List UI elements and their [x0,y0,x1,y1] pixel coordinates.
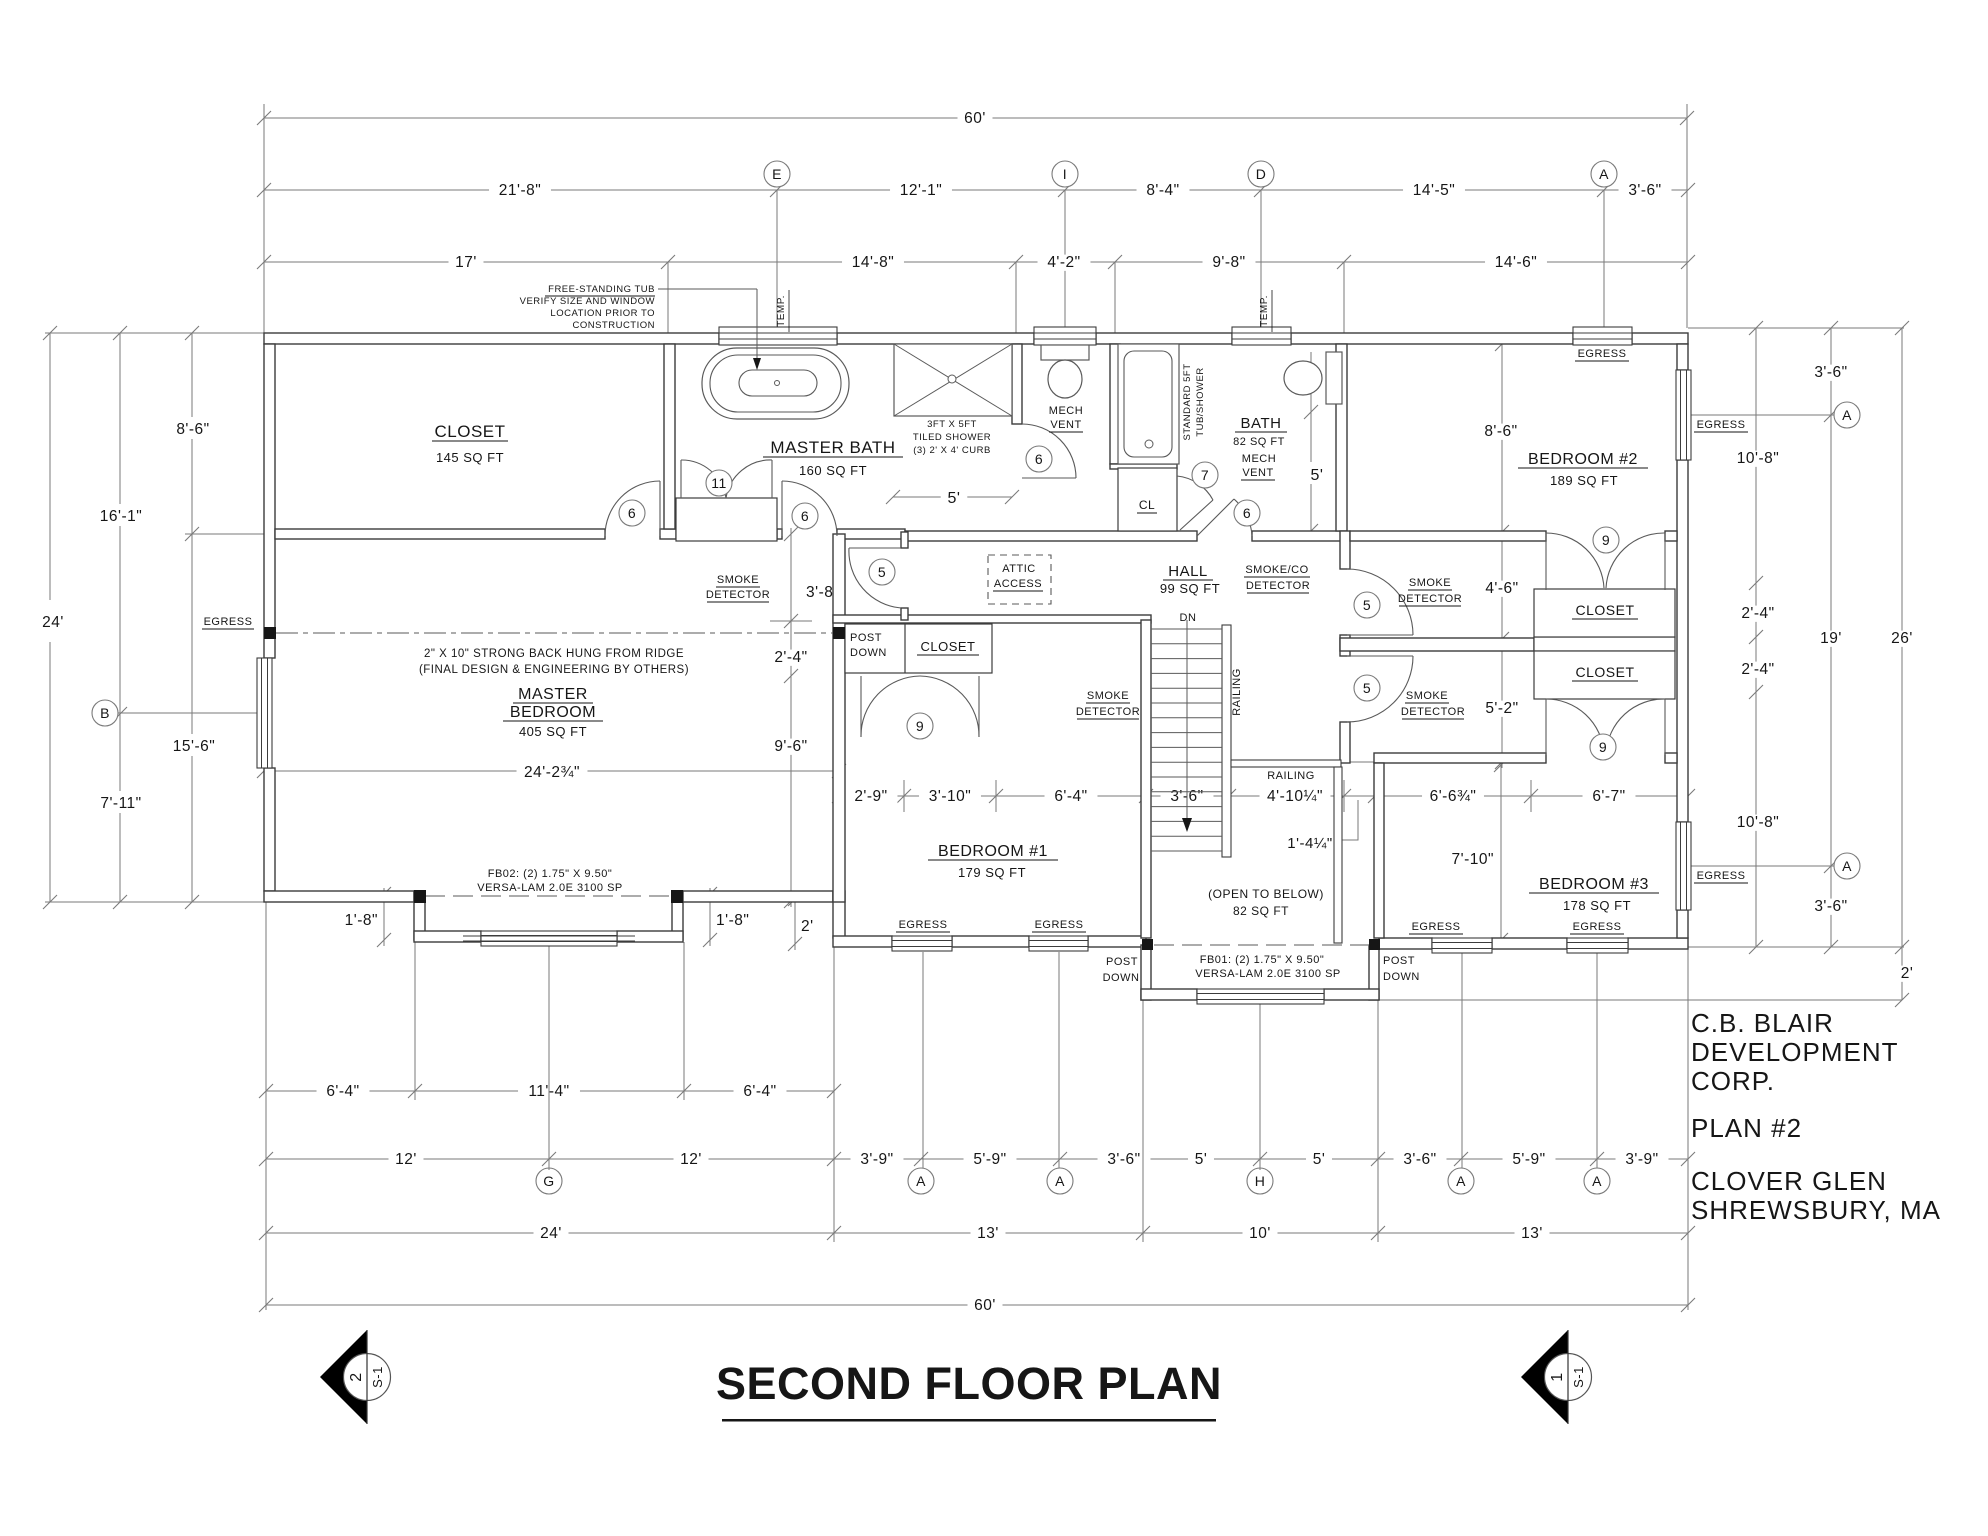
svg-text:DN: DN [1180,612,1197,624]
svg-text:60': 60' [974,1297,996,1314]
svg-text:CLOSET: CLOSET [920,639,975,654]
svg-text:5: 5 [1363,597,1371,613]
svg-text:24': 24' [540,1225,562,1242]
svg-text:VERSA-LAM 2.0E 3100 SP: VERSA-LAM 2.0E 3100 SP [1195,968,1341,980]
svg-text:9: 9 [1602,532,1610,548]
svg-text:G: G [543,1173,554,1189]
svg-text:I: I [1063,166,1067,182]
svg-text:EGRESS: EGRESS [1578,348,1627,360]
svg-text:2': 2' [1901,965,1914,982]
svg-text:S-1: S-1 [370,1366,385,1388]
svg-text:3'-6": 3'-6" [1814,898,1847,915]
svg-text:EGRESS: EGRESS [1412,921,1461,933]
svg-text:EGRESS: EGRESS [1035,919,1084,931]
svg-text:16'-1": 16'-1" [100,508,142,525]
svg-text:POST: POST [850,632,882,644]
svg-text:SMOKE: SMOKE [1409,577,1451,589]
svg-text:10': 10' [1249,1225,1271,1242]
svg-text:4'-10¼": 4'-10¼" [1267,788,1323,805]
svg-text:A: A [916,1173,926,1189]
svg-text:BEDROOM: BEDROOM [510,704,596,721]
svg-text:CONSTRUCTION: CONSTRUCTION [572,320,655,331]
svg-text:13': 13' [977,1225,999,1242]
svg-text:BEDROOM #3: BEDROOM #3 [1539,876,1649,893]
svg-text:7'-11": 7'-11" [100,795,141,812]
svg-text:EGRESS: EGRESS [1573,921,1622,933]
svg-text:12': 12' [680,1151,702,1168]
svg-text:4'-2": 4'-2" [1047,254,1080,271]
svg-text:5'-9": 5'-9" [973,1151,1006,1168]
svg-text:1'-4¼": 1'-4¼" [1287,835,1332,852]
svg-text:VERSA-LAM 2.0E 3100 SP: VERSA-LAM 2.0E 3100 SP [477,882,623,894]
svg-text:13': 13' [1521,1225,1543,1242]
svg-text:A: A [1592,1173,1602,1189]
svg-text:5'-9": 5'-9" [1512,1151,1545,1168]
svg-text:SMOKE: SMOKE [1406,690,1448,702]
svg-text:17': 17' [455,254,477,271]
svg-text:3'-6": 3'-6" [1628,182,1661,199]
svg-text:(3) 2' X 4' CURB: (3) 2' X 4' CURB [913,445,991,456]
svg-text:CLOSET: CLOSET [1575,664,1634,680]
svg-text:178 SQ FT: 178 SQ FT [1563,898,1631,913]
svg-text:9'-8": 9'-8" [1212,254,1245,271]
svg-text:2'-4": 2'-4" [1741,661,1774,678]
svg-text:5': 5' [1311,467,1324,484]
svg-text:POST: POST [1106,956,1138,968]
svg-text:EGRESS: EGRESS [1697,419,1746,431]
svg-text:DETECTOR: DETECTOR [1076,706,1140,718]
svg-text:6: 6 [628,505,636,521]
svg-text:14'-5": 14'-5" [1413,182,1455,199]
svg-text:DOWN: DOWN [1103,972,1140,984]
svg-text:99 SQ FT: 99 SQ FT [1160,581,1220,596]
svg-text:POST: POST [1383,955,1415,967]
svg-text:EGRESS: EGRESS [899,919,948,931]
svg-text:2: 2 [348,1372,365,1381]
svg-text:24': 24' [42,614,64,631]
svg-text:HALL: HALL [1168,563,1208,580]
svg-text:SMOKE: SMOKE [1087,690,1129,702]
svg-text:DETECTOR: DETECTOR [1246,580,1310,592]
svg-text:DETECTOR: DETECTOR [1398,593,1462,605]
svg-text:2" X 10" STRONG BACK HUNG FROM: 2" X 10" STRONG BACK HUNG FROM RIDGE [424,648,684,660]
svg-text:A: A [1599,166,1609,182]
svg-text:6'-4": 6'-4" [1054,788,1087,805]
svg-text:CL: CL [1139,498,1155,512]
svg-text:4'-6": 4'-6" [1485,580,1518,597]
svg-text:A: A [1842,858,1852,874]
svg-text:FB01: (2) 1.75" X 9.50": FB01: (2) 1.75" X 9.50" [1200,954,1324,966]
svg-text:3'-10": 3'-10" [929,788,971,805]
svg-text:2'-9": 2'-9" [854,788,887,805]
svg-text:15'-6": 15'-6" [173,738,215,755]
svg-text:A: A [1842,407,1852,423]
svg-text:8'-4": 8'-4" [1146,182,1179,199]
svg-text:14'-8": 14'-8" [852,254,894,271]
svg-text:19': 19' [1820,630,1842,647]
svg-text:6'-7": 6'-7" [1592,788,1625,805]
svg-text:2'-4": 2'-4" [774,649,807,666]
svg-text:82 SQ FT: 82 SQ FT [1233,436,1285,448]
svg-text:EGRESS: EGRESS [204,616,253,628]
svg-text:E: E [772,166,782,182]
svg-text:5: 5 [878,564,886,580]
svg-text:MASTER: MASTER [518,686,588,703]
svg-text:189 SQ FT: 189 SQ FT [1550,473,1618,488]
svg-text:145 SQ FT: 145 SQ FT [436,450,504,465]
svg-text:5': 5' [948,490,961,507]
svg-text:6: 6 [1243,505,1251,521]
svg-text:ATTIC: ATTIC [1002,563,1035,575]
svg-text:6: 6 [1035,451,1043,467]
svg-text:3'-9": 3'-9" [860,1151,893,1168]
svg-text:BATH: BATH [1241,415,1282,432]
svg-text:1'-8": 1'-8" [716,912,749,929]
svg-text:CLOSET: CLOSET [434,422,505,441]
svg-text:FB02: (2) 1.75" X 9.50": FB02: (2) 1.75" X 9.50" [488,868,612,880]
svg-text:SMOKE/CO: SMOKE/CO [1245,564,1308,576]
svg-text:RAILING: RAILING [1231,668,1243,716]
svg-text:D: D [1256,166,1267,182]
svg-text:CLOSET: CLOSET [1575,602,1634,618]
svg-text:10'-8": 10'-8" [1737,814,1779,831]
svg-text:EGRESS: EGRESS [1697,870,1746,882]
svg-text:S-1: S-1 [1571,1366,1586,1388]
svg-text:2': 2' [801,918,814,935]
svg-text:8'-6": 8'-6" [1484,423,1517,440]
svg-text:1: 1 [1549,1372,1566,1381]
svg-text:TILED SHOWER: TILED SHOWER [913,432,991,443]
svg-text:SECOND FLOOR PLAN: SECOND FLOOR PLAN [716,1358,1222,1409]
svg-text:5': 5' [1195,1151,1208,1168]
svg-text:A: A [1456,1173,1466,1189]
svg-text:82 SQ FT: 82 SQ FT [1233,904,1289,918]
svg-text:SHREWSBURY, MA: SHREWSBURY, MA [1691,1195,1941,1225]
svg-text:6: 6 [801,508,809,524]
svg-text:5': 5' [1313,1151,1326,1168]
svg-text:7'-10": 7'-10" [1452,851,1494,868]
svg-text:5'-2": 5'-2" [1485,700,1518,717]
svg-text:DETECTOR: DETECTOR [706,589,770,601]
svg-text:BEDROOM #2: BEDROOM #2 [1528,451,1638,468]
svg-text:3'-6": 3'-6" [1403,1151,1436,1168]
svg-text:(OPEN TO BELOW): (OPEN TO BELOW) [1208,887,1324,901]
svg-text:RAILING: RAILING [1267,770,1315,782]
svg-text:BEDROOM #1: BEDROOM #1 [938,843,1048,860]
svg-text:B: B [100,705,110,721]
svg-text:5: 5 [1363,680,1371,696]
svg-text:3'-9": 3'-9" [1625,1151,1658,1168]
svg-text:8'-6": 8'-6" [176,421,209,438]
svg-text:6'-6¾": 6'-6¾" [1430,788,1477,805]
svg-text:3FT X 5FT: 3FT X 5FT [927,419,977,430]
svg-text:11: 11 [711,475,727,491]
svg-text:DOWN: DOWN [850,647,887,659]
svg-text:DOWN: DOWN [1383,971,1420,983]
svg-text:60': 60' [964,110,986,127]
svg-text:3'-6": 3'-6" [1814,364,1847,381]
svg-text:PLAN #2: PLAN #2 [1691,1113,1802,1143]
svg-text:VENT: VENT [1050,419,1081,431]
svg-text:CORP.: CORP. [1691,1066,1775,1096]
svg-text:(FINAL DESIGN & ENGINEERING BY: (FINAL DESIGN & ENGINEERING BY OTHERS) [419,664,689,676]
svg-text:TEMP.: TEMP. [1259,295,1270,327]
svg-text:1'-8": 1'-8" [345,912,378,929]
svg-text:MASTER BATH: MASTER BATH [770,438,895,457]
svg-text:9: 9 [916,718,924,734]
svg-text:12'-1": 12'-1" [900,182,942,199]
svg-text:TUB/SHOWER: TUB/SHOWER [1195,367,1206,436]
svg-text:21'-8": 21'-8" [499,182,541,199]
svg-text:160 SQ FT: 160 SQ FT [799,463,867,478]
svg-text:MECH: MECH [1242,453,1276,465]
svg-text:2'-4": 2'-4" [1741,605,1774,622]
svg-text:7: 7 [1201,467,1209,483]
svg-text:10'-8": 10'-8" [1737,450,1779,467]
svg-text:DETECTOR: DETECTOR [1401,706,1465,718]
svg-text:DEVELOPMENT: DEVELOPMENT [1691,1037,1899,1067]
svg-text:3'-6": 3'-6" [1107,1151,1140,1168]
svg-text:179 SQ FT: 179 SQ FT [958,865,1026,880]
svg-text:LOCATION PRIOR TO: LOCATION PRIOR TO [550,308,655,319]
svg-text:12': 12' [395,1151,417,1168]
svg-text:9: 9 [1599,739,1607,755]
svg-text:VERIFY SIZE AND WINDOW: VERIFY SIZE AND WINDOW [520,296,655,307]
svg-text:MECH: MECH [1049,405,1083,417]
svg-text:405 SQ FT: 405 SQ FT [519,724,587,739]
svg-text:STANDARD 5FT: STANDARD 5FT [1182,363,1193,440]
svg-text:TEMP.: TEMP. [776,295,787,327]
svg-text:6'-4": 6'-4" [743,1083,776,1100]
svg-text:SMOKE: SMOKE [717,574,759,586]
svg-text:VENT: VENT [1242,467,1273,479]
svg-text:14'-6": 14'-6" [1495,254,1537,271]
svg-text:9'-6": 9'-6" [774,738,807,755]
svg-text:A: A [1055,1173,1065,1189]
svg-text:ACCESS: ACCESS [994,578,1042,590]
svg-text:CLOVER GLEN: CLOVER GLEN [1691,1166,1887,1196]
svg-text:C.B. BLAIR: C.B. BLAIR [1691,1008,1834,1038]
svg-text:H: H [1255,1173,1266,1189]
svg-text:6'-4": 6'-4" [326,1083,359,1100]
svg-text:FREE-STANDING TUB: FREE-STANDING TUB [548,284,655,295]
svg-text:24'-2¾": 24'-2¾" [524,764,580,781]
svg-text:26': 26' [1891,630,1913,647]
